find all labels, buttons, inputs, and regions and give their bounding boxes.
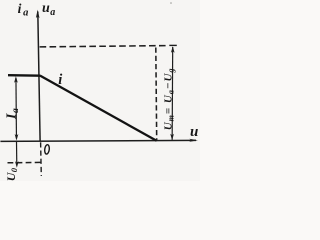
- U0 dimension line: [16, 142, 18, 166]
- falling characteristic line i: [40, 76, 156, 141]
- dashed vertical at end of characteristic: [155, 48, 158, 141]
- x-axis: [0, 140, 196, 141]
- Ia current plateau line: [8, 74, 41, 77]
- x-axis arrowhead: [189, 139, 198, 142]
- paper background: [0, 0, 200, 181]
- label 0 at origin: [44, 144, 50, 154]
- y-axis: [38, 12, 40, 142]
- Um dimension line: [171, 47, 174, 140]
- Um dimension top tick: [169, 44, 177, 46]
- dashed level line -U0 below x-axis: [8, 161, 41, 163]
- U0 dimension arrow down: [15, 161, 19, 168]
- speck: [170, 2, 172, 4]
- Ia dimension line: [15, 78, 18, 139]
- Um dimension arrow up: [171, 46, 175, 53]
- Ia dimension arrow up: [14, 76, 18, 83]
- svg-text:i: i: [58, 72, 62, 88]
- svg-text:u: u: [190, 124, 198, 140]
- dashed level line Ua (top of box): [40, 46, 166, 47]
- y-axis arrowhead: [36, 10, 40, 18]
- Ia dimension arrow down: [15, 134, 19, 141]
- y-axis dashed continuation below x-axis: [40, 142, 43, 176]
- Um dimension arrow down: [170, 134, 174, 141]
